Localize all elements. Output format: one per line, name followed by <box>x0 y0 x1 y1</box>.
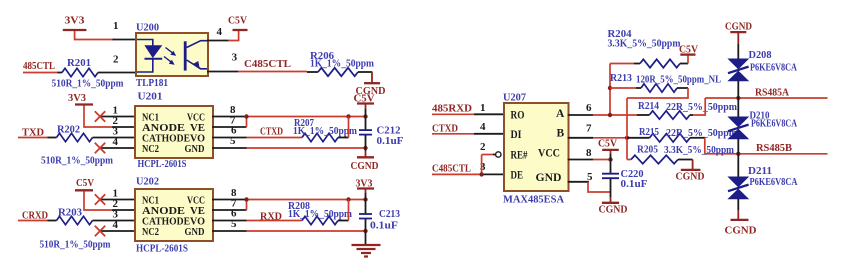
U201 pin 5 <box>212 147 247 149</box>
svg-text:A: A <box>556 108 565 120</box>
svg-text:1K_1%_50ppm: 1K_1%_50ppm <box>310 58 374 70</box>
transceiver U207 MAX485ESA body <box>504 103 569 191</box>
svg-text:485CTL: 485CTL <box>23 60 55 72</box>
svg-text:VCC: VCC <box>538 148 560 160</box>
svg-text:C5V: C5V <box>228 15 247 27</box>
opto-coupler U200 TLP181 body <box>136 33 208 76</box>
opto-coupler U201 HCPL-2601S body <box>135 106 213 158</box>
svg-text:U202: U202 <box>136 176 159 188</box>
svg-text:CGND: CGND <box>676 170 705 182</box>
svg-text:4: 4 <box>113 219 119 231</box>
U207 pin 6 (A) <box>568 114 594 116</box>
rail wire C5V to CGND <box>365 104 367 110</box>
resistor R213 120R_5%_50ppm_NL <box>610 87 636 89</box>
U201 pin 2 <box>112 126 136 128</box>
svg-text:R203: R203 <box>58 207 82 219</box>
svg-text:RO: RO <box>511 109 525 121</box>
svg-text:CGND: CGND <box>725 225 757 237</box>
junction <box>479 172 483 176</box>
svg-text:510R_1%_50ppm: 510R_1%_50ppm <box>40 239 111 251</box>
ground CGND (C212) <box>357 156 374 158</box>
wire U207 pin 5 to CGND rail <box>588 182 611 192</box>
svg-text:CGND: CGND <box>725 21 752 33</box>
ground CGND (R206) <box>364 82 380 84</box>
U202 pin 5 <box>212 230 247 232</box>
U202 pin 2 <box>112 209 136 211</box>
resistor R203 510R_1%_50ppm <box>48 220 57 222</box>
svg-text:1K_1%_50ppm: 1K_1%_50ppm <box>293 125 357 137</box>
svg-text:NC2: NC2 <box>142 226 159 238</box>
U207 pin 7 (B) <box>568 137 594 139</box>
svg-text:R215: R215 <box>639 126 659 138</box>
wire A net riser <box>609 64 611 116</box>
U201 pin 8 <box>212 116 247 118</box>
wire B net riser <box>626 98 628 160</box>
U200 pin 1 <box>113 39 138 41</box>
svg-text:0.1uF: 0.1uF <box>377 135 404 147</box>
svg-text:R202: R202 <box>57 124 80 136</box>
svg-text:510R_1%_50ppm: 510R_1%_50ppm <box>41 155 113 167</box>
svg-text:6: 6 <box>586 102 592 114</box>
wire U202 pin 5 to ground rail <box>247 230 366 232</box>
U202 pin 6 <box>212 220 247 222</box>
U201 pin 4 no-connect <box>100 147 136 149</box>
junction <box>244 197 248 201</box>
junction <box>363 146 367 150</box>
wire R206 to CGND <box>358 71 372 73</box>
svg-text:R214: R214 <box>638 100 659 112</box>
svg-text:4: 4 <box>217 26 223 38</box>
svg-text:R213: R213 <box>610 72 632 84</box>
opto-coupler U202 HCPL-2601S body <box>135 189 213 241</box>
U202 pin 4 no-connect <box>100 230 136 232</box>
svg-text:5: 5 <box>230 135 236 147</box>
svg-text:GND: GND <box>536 172 562 184</box>
junction <box>346 114 350 118</box>
wire R207 to VCC rail <box>338 137 349 139</box>
wire 3V3 to U201 pin 2 <box>84 106 112 128</box>
wire U202 pins 7-8 tie <box>246 200 248 211</box>
svg-text:MAX485ESA: MAX485ESA <box>503 193 564 205</box>
capacitor C212 0.1uF <box>359 129 372 131</box>
svg-text:C485CTL: C485CTL <box>244 58 291 70</box>
resistor R215 22R_5%_50ppm <box>627 137 650 139</box>
junction <box>736 96 740 100</box>
U201 pin 1 no-connect <box>100 116 136 118</box>
wire R208 to 3V3 rail <box>338 220 349 222</box>
TVS diode D210 P6KE6V8CA <box>729 117 748 127</box>
capacitor C220 0.1uF <box>602 173 619 175</box>
junction <box>625 136 629 140</box>
rail wire below C220 <box>610 179 612 197</box>
wire U202 pin 8 to 3V3 rail <box>247 199 366 201</box>
wire D210 to RS485B <box>737 139 739 154</box>
svg-text:1K_1%_50ppm: 1K_1%_50ppm <box>288 208 352 220</box>
svg-text:485RXD: 485RXD <box>432 103 472 115</box>
resistor R214 22R_5%_50ppm <box>637 114 650 116</box>
wire R213 to B net <box>677 87 688 89</box>
capacitor C213 0.1uF <box>359 213 372 215</box>
rail wire below C213 <box>365 219 367 244</box>
resistor R206 1K_1%_50ppm <box>307 71 318 73</box>
rail wire 3V3 to ground <box>365 189 367 194</box>
junction <box>608 157 612 161</box>
svg-text:P6KE6V8CA: P6KE6V8CA <box>750 62 797 74</box>
svg-text:DI: DI <box>511 129 522 141</box>
svg-text:B: B <box>557 128 565 140</box>
svg-text:D208: D208 <box>749 49 772 61</box>
svg-text:C5V: C5V <box>598 138 617 150</box>
resistor R201 510R_1%_50ppm <box>58 72 63 74</box>
svg-text:4: 4 <box>113 136 119 148</box>
svg-text:GND: GND <box>185 226 205 238</box>
U202 pin 1 no-connect <box>100 199 136 201</box>
wire VCC to C220 rail <box>593 159 611 161</box>
svg-text:HCPL-2601S: HCPL-2601S <box>138 158 187 170</box>
U200 light arrows <box>166 48 174 54</box>
svg-text:RS485B: RS485B <box>756 142 793 154</box>
svg-text:P6KE6V8CA: P6KE6V8CA <box>751 117 797 129</box>
wire R204 to C5V <box>680 63 688 65</box>
ground CGND (C220) <box>602 202 619 204</box>
resistor R202 510R_1%_50ppm <box>48 137 57 139</box>
junction <box>736 152 740 156</box>
svg-text:2: 2 <box>113 54 119 66</box>
wire A net <box>593 114 637 116</box>
svg-text:120R_5%_50ppm_NL: 120R_5%_50ppm_NL <box>636 73 721 85</box>
svg-text:0.1uF: 0.1uF <box>370 219 398 231</box>
rail wire below C212 <box>365 135 367 151</box>
junction <box>608 113 612 117</box>
ground CGND (R205) <box>681 169 701 171</box>
ground CGND (bottom of TVS chain) <box>731 219 749 221</box>
svg-text:22R_5%_50ppm: 22R_5%_50ppm <box>666 101 737 113</box>
wire B net <box>593 137 627 139</box>
wire U201 pins 7-8 tie <box>246 117 248 128</box>
wire D208 to RS485A <box>737 81 739 98</box>
svg-text:P6KE6V8CA: P6KE6V8CA <box>750 176 798 188</box>
wire C5V to U202 pin 2 <box>84 191 112 210</box>
wire D211 to CGND <box>737 199 739 210</box>
junction <box>244 114 248 118</box>
wire R201 to U200 pin 2 <box>98 72 137 74</box>
wire R202 to U201 pin 3 <box>93 137 137 139</box>
wire 3V3 to U200 pin 1 <box>75 31 114 40</box>
wire U201 pin 8 to C5V rail <box>247 116 366 118</box>
wire U201 pin 5 to ground rail <box>247 147 366 149</box>
wire R205 to CGND <box>678 159 693 161</box>
svg-text:3.3K_5%_50ppm: 3.3K_5%_50ppm <box>608 38 681 50</box>
U201 pin 7 <box>212 126 247 128</box>
wire CGND to D208 <box>737 32 739 44</box>
wire RS485B to D211 <box>737 154 739 177</box>
U207 pin 5 (GND) <box>568 181 590 183</box>
resistor R208 1K_1%_50ppm <box>302 216 338 224</box>
svg-text:3.3K_5%_50ppm: 3.3K_5%_50ppm <box>664 144 734 156</box>
U201 pin 6 <box>212 137 247 139</box>
svg-text:8: 8 <box>586 147 592 159</box>
svg-text:CTXD: CTXD <box>432 123 458 135</box>
TVS diode D211 P6KE6V8CA <box>729 177 748 187</box>
svg-text:3V3: 3V3 <box>65 15 86 27</box>
svg-text:CRXD: CRXD <box>22 209 48 221</box>
svg-text:RE#: RE# <box>511 150 528 162</box>
resistor R207 1K_1%_50ppm <box>302 133 338 141</box>
junction <box>608 86 612 90</box>
svg-text:CGND: CGND <box>351 160 379 172</box>
svg-text:GND: GND <box>185 143 205 155</box>
svg-text:1: 1 <box>480 102 486 114</box>
junction <box>363 229 367 233</box>
svg-text:5: 5 <box>231 218 237 230</box>
svg-text:4: 4 <box>480 121 486 133</box>
U200 pin 4 <box>207 40 229 42</box>
U200 internal phototransistor <box>184 41 187 70</box>
U202 pin 8 <box>212 199 247 201</box>
resistor R204 3.3K_5%_50ppm <box>610 63 634 65</box>
svg-text:TLP181: TLP181 <box>136 77 168 89</box>
svg-text:U207: U207 <box>503 92 526 104</box>
svg-text:U201: U201 <box>138 90 163 102</box>
junction <box>363 114 367 118</box>
rail wire C5V to CGND <box>610 150 612 154</box>
wire R203 to U202 pin 3 <box>93 220 137 222</box>
svg-text:3V3: 3V3 <box>68 92 86 104</box>
svg-text:510R_1%_50ppm: 510R_1%_50ppm <box>52 78 124 90</box>
U200 internal LED <box>137 40 153 46</box>
U202 pin 7 <box>212 209 247 211</box>
svg-text:2: 2 <box>480 141 486 153</box>
U207 pin 8 (VCC) <box>568 159 594 161</box>
svg-text:R201: R201 <box>67 57 91 69</box>
junction <box>363 197 367 201</box>
svg-text:R205: R205 <box>637 144 658 156</box>
svg-text:C485CTL: C485CTL <box>432 163 471 175</box>
svg-text:3: 3 <box>232 52 238 64</box>
svg-text:NC2: NC2 <box>142 143 159 155</box>
svg-text:7: 7 <box>586 123 592 135</box>
svg-text:CGND: CGND <box>599 204 628 216</box>
svg-text:DE: DE <box>511 169 524 181</box>
junction <box>346 197 350 201</box>
svg-text:RS485A: RS485A <box>755 87 789 99</box>
wire RS485A to D210 <box>737 98 739 117</box>
resistor R205 3.3K_5%_50ppm <box>627 159 631 161</box>
svg-text:C5V: C5V <box>76 177 94 189</box>
wire DE-RE tie <box>481 155 483 175</box>
svg-text:1: 1 <box>113 105 119 117</box>
svg-text:5: 5 <box>587 171 593 183</box>
earth ground (C213) <box>352 244 381 246</box>
U200 pin 3 <box>207 71 238 73</box>
wire R214 to RS485A <box>690 114 693 116</box>
svg-text:1: 1 <box>113 20 119 32</box>
svg-text:0.1uF: 0.1uF <box>621 178 648 190</box>
svg-text:CTXD: CTXD <box>260 126 283 138</box>
TVS diode D208 P6KE6V8CA <box>729 59 748 69</box>
svg-text:U200: U200 <box>136 22 159 34</box>
wire U200 pin 4 to C5V <box>229 31 239 41</box>
svg-text:1: 1 <box>113 188 119 200</box>
svg-text:HCPL-2601S: HCPL-2601S <box>136 243 188 255</box>
svg-text:C213: C213 <box>379 208 400 220</box>
wire R215 to RS485B <box>690 137 705 139</box>
U207 pin 2 (RE#) <box>482 154 493 156</box>
